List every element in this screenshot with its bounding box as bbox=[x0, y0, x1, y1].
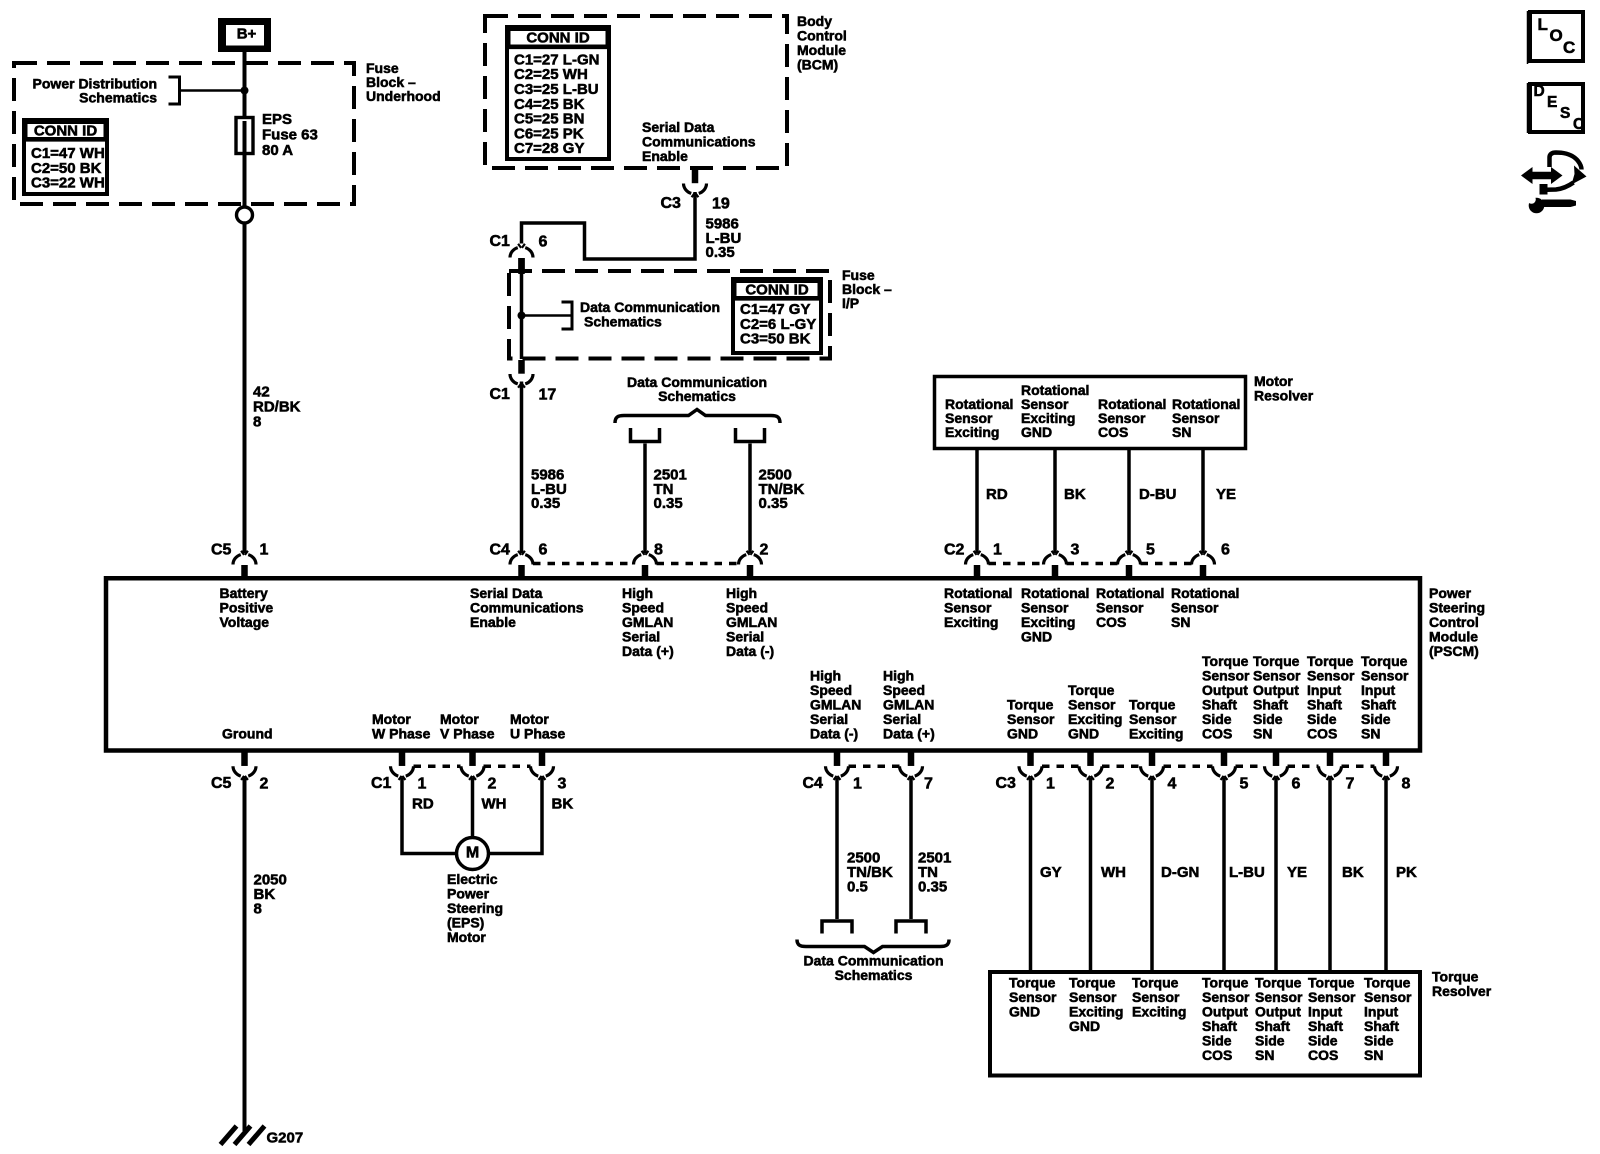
svg-text:1: 1 bbox=[1046, 776, 1055, 793]
svg-text:C1: C1 bbox=[490, 233, 511, 250]
svg-text:1: 1 bbox=[853, 776, 862, 793]
svg-text:2: 2 bbox=[260, 776, 269, 793]
svg-text:I/P: I/P bbox=[842, 295, 859, 311]
svg-text:C3: C3 bbox=[661, 195, 682, 212]
svg-text:SN: SN bbox=[1364, 1047, 1383, 1063]
svg-text:0.35: 0.35 bbox=[759, 495, 788, 512]
svg-text:6: 6 bbox=[1292, 776, 1301, 793]
svg-text:C4: C4 bbox=[490, 542, 511, 559]
svg-text:Resolver: Resolver bbox=[1432, 983, 1492, 999]
svg-text:GND: GND bbox=[1007, 726, 1038, 742]
svg-text:D-BU: D-BU bbox=[1139, 486, 1177, 503]
svg-text:80 A: 80 A bbox=[262, 142, 293, 159]
svg-text:(PSCM): (PSCM) bbox=[1429, 643, 1479, 659]
svg-text:Exciting: Exciting bbox=[1132, 1004, 1186, 1020]
svg-text:SN: SN bbox=[1361, 726, 1380, 742]
svg-text:YE: YE bbox=[1287, 864, 1307, 881]
svg-text:D: D bbox=[1534, 83, 1545, 100]
svg-text:L-BU: L-BU bbox=[1229, 864, 1265, 881]
svg-text:Fuse 63: Fuse 63 bbox=[262, 126, 318, 143]
svg-text:19: 19 bbox=[712, 196, 730, 213]
svg-text:C1: C1 bbox=[371, 775, 392, 792]
svg-text:C7=28 GY: C7=28 GY bbox=[514, 140, 584, 157]
svg-text:3: 3 bbox=[1071, 542, 1080, 559]
svg-text:B+: B+ bbox=[237, 26, 257, 43]
svg-text:7: 7 bbox=[1346, 776, 1355, 793]
svg-text:C4: C4 bbox=[803, 775, 824, 792]
svg-text:O: O bbox=[1550, 26, 1563, 45]
svg-text:WH: WH bbox=[1101, 864, 1126, 881]
svg-text:Exciting: Exciting bbox=[944, 614, 998, 630]
svg-text:GND: GND bbox=[1069, 1018, 1100, 1034]
svg-text:0.35: 0.35 bbox=[654, 495, 683, 512]
svg-text:COS: COS bbox=[1096, 614, 1126, 630]
svg-text:1: 1 bbox=[993, 542, 1002, 559]
svg-text:Schematics: Schematics bbox=[658, 388, 736, 404]
svg-text:PK: PK bbox=[1396, 864, 1417, 881]
svg-text:Exciting: Exciting bbox=[945, 424, 999, 440]
svg-text:Schematics: Schematics bbox=[835, 967, 913, 983]
svg-text:0.5: 0.5 bbox=[847, 879, 868, 896]
svg-text:BK: BK bbox=[1064, 486, 1086, 503]
svg-text:5: 5 bbox=[1146, 542, 1155, 559]
svg-text:Motor: Motor bbox=[447, 929, 486, 945]
svg-text:GY: GY bbox=[1040, 864, 1062, 881]
svg-text:D-GN: D-GN bbox=[1161, 864, 1199, 881]
svg-text:Enable: Enable bbox=[642, 148, 688, 164]
svg-text:M: M bbox=[466, 845, 479, 862]
svg-text:BK: BK bbox=[552, 796, 574, 813]
svg-text:3: 3 bbox=[558, 776, 567, 793]
svg-text:GND: GND bbox=[1068, 726, 1099, 742]
svg-text:GND: GND bbox=[1021, 629, 1052, 645]
svg-text:Schematics: Schematics bbox=[79, 90, 157, 106]
svg-text:G207: G207 bbox=[267, 1130, 304, 1147]
svg-text:2: 2 bbox=[1106, 776, 1115, 793]
svg-text:8: 8 bbox=[254, 901, 262, 918]
svg-text:C3=22 WH: C3=22 WH bbox=[31, 175, 105, 192]
svg-text:S: S bbox=[1560, 105, 1570, 122]
svg-text:0.35: 0.35 bbox=[706, 244, 735, 261]
svg-text:E: E bbox=[1547, 94, 1557, 111]
svg-text:Data (-): Data (-) bbox=[810, 726, 858, 742]
svg-text:COS: COS bbox=[1308, 1047, 1338, 1063]
svg-text:C2: C2 bbox=[944, 542, 965, 559]
svg-text:6: 6 bbox=[539, 234, 548, 251]
svg-text:BK: BK bbox=[1342, 864, 1364, 881]
svg-text:SN: SN bbox=[1172, 424, 1191, 440]
svg-text:COS: COS bbox=[1307, 726, 1337, 742]
svg-text:6: 6 bbox=[539, 542, 548, 559]
svg-text:RD: RD bbox=[986, 486, 1008, 503]
svg-text:V Phase: V Phase bbox=[440, 726, 495, 742]
svg-text:Underhood: Underhood bbox=[366, 88, 441, 104]
svg-text:2: 2 bbox=[760, 542, 769, 559]
svg-text:Data (+): Data (+) bbox=[622, 643, 674, 659]
svg-text:U Phase: U Phase bbox=[510, 726, 565, 742]
svg-text:CONN ID: CONN ID bbox=[34, 122, 98, 139]
svg-text:Ground: Ground bbox=[222, 726, 273, 742]
svg-text:SN: SN bbox=[1255, 1047, 1274, 1063]
svg-text:Enable: Enable bbox=[470, 614, 516, 630]
svg-text:COS: COS bbox=[1098, 424, 1128, 440]
svg-text:8: 8 bbox=[253, 413, 261, 430]
svg-text:2: 2 bbox=[488, 776, 497, 793]
svg-text:4: 4 bbox=[1168, 776, 1177, 793]
svg-text:0.35: 0.35 bbox=[918, 879, 947, 896]
svg-text:WH: WH bbox=[482, 796, 507, 813]
svg-text:SN: SN bbox=[1171, 614, 1190, 630]
svg-text:C5: C5 bbox=[211, 775, 232, 792]
svg-text:GND: GND bbox=[1009, 1004, 1040, 1020]
svg-text:C3: C3 bbox=[996, 775, 1017, 792]
svg-text:Data (+): Data (+) bbox=[883, 726, 935, 742]
svg-text:L: L bbox=[1538, 15, 1548, 34]
svg-text:8: 8 bbox=[654, 542, 663, 559]
svg-text:Voltage: Voltage bbox=[220, 614, 270, 630]
svg-text:0.35: 0.35 bbox=[531, 495, 560, 512]
svg-text:CONN ID: CONN ID bbox=[526, 30, 590, 47]
svg-text:COS: COS bbox=[1202, 1047, 1232, 1063]
svg-text:C: C bbox=[1573, 116, 1584, 133]
svg-text:RD: RD bbox=[412, 796, 434, 813]
svg-text:C3=50 BK: C3=50 BK bbox=[740, 331, 811, 348]
svg-text:COS: COS bbox=[1202, 726, 1232, 742]
svg-text:C1: C1 bbox=[490, 386, 511, 403]
svg-text:Resolver: Resolver bbox=[1254, 388, 1314, 404]
svg-text:CONN ID: CONN ID bbox=[745, 281, 809, 298]
svg-text:C5: C5 bbox=[211, 542, 232, 559]
svg-text:YE: YE bbox=[1216, 486, 1236, 503]
svg-text:5: 5 bbox=[1240, 776, 1249, 793]
svg-text:Data (-): Data (-) bbox=[726, 643, 774, 659]
svg-text:8: 8 bbox=[1402, 776, 1411, 793]
svg-text:C: C bbox=[1563, 38, 1575, 57]
svg-text:(BCM): (BCM) bbox=[797, 57, 838, 73]
svg-text:1: 1 bbox=[418, 776, 427, 793]
svg-text:Schematics: Schematics bbox=[584, 314, 662, 330]
svg-text:7: 7 bbox=[924, 776, 933, 793]
svg-text:SN: SN bbox=[1253, 726, 1272, 742]
svg-text:GND: GND bbox=[1021, 424, 1052, 440]
svg-text:Exciting: Exciting bbox=[1129, 726, 1183, 742]
svg-text:17: 17 bbox=[539, 387, 557, 404]
svg-text:W Phase: W Phase bbox=[372, 726, 431, 742]
svg-text:1: 1 bbox=[260, 542, 269, 559]
svg-text:6: 6 bbox=[1221, 542, 1230, 559]
